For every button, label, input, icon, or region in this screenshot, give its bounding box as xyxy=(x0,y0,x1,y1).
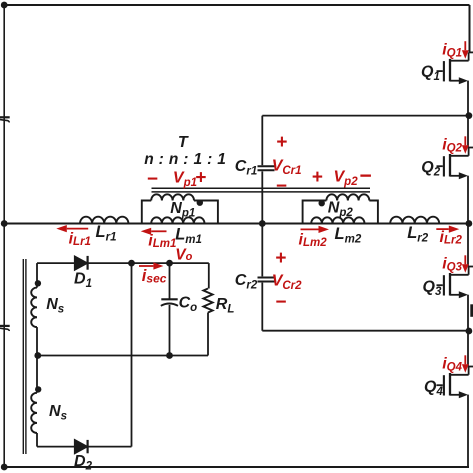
wire: rail jog vertical Q3 xyxy=(468,267,470,275)
diode D1 xyxy=(75,256,88,270)
wire: D1 cathode to output node xyxy=(87,262,209,264)
wire: Co bottom xyxy=(169,305,171,356)
current arrow iLr1 xyxy=(67,228,88,230)
wire: secondary top xyxy=(37,262,75,264)
wire: rail jog vertical Q2 xyxy=(468,148,470,156)
winding Ns1 xyxy=(36,263,38,288)
wire: rail jog vertical Q4 xyxy=(468,367,470,375)
wire: rectified vertical (D1-D2 join) xyxy=(131,263,133,447)
transistor Q2 xyxy=(437,154,469,179)
current arrow iLm1 xyxy=(151,230,166,232)
inductor Lr1 xyxy=(80,217,128,224)
node: top-left junction xyxy=(1,2,8,9)
node: center tap junction xyxy=(34,352,41,359)
current arrow iQ4 xyxy=(464,355,466,364)
svg-text:+: + xyxy=(276,132,287,153)
wire: right rail Q2source-Q3jog xyxy=(467,176,469,267)
polarity dot Ns1 xyxy=(35,280,41,286)
svg-text:T: T xyxy=(178,134,189,151)
capacitor Cr2 xyxy=(258,278,275,282)
current arrow iLr2 xyxy=(436,228,449,230)
svg-text:+: + xyxy=(275,248,286,269)
transformer secondary core bars xyxy=(23,259,26,454)
transistor Q1 xyxy=(437,59,469,84)
node: D1 cathode junction xyxy=(128,260,135,267)
voltage source Vin lower plates (left edge) xyxy=(0,326,10,331)
wire: right-rail jog stub Q1 xyxy=(469,51,473,53)
wire: RL branch top xyxy=(208,263,210,288)
inductor Lr2 xyxy=(390,217,439,224)
wire: right-rail jog stub Q3 xyxy=(469,266,473,268)
wire: RL bottom xyxy=(207,313,209,356)
polarity dot Np2 xyxy=(319,200,325,206)
wire: left rail xyxy=(3,5,5,467)
winding Np2 loop xyxy=(303,201,327,224)
wire: D2 cathode to vertical xyxy=(87,446,132,448)
wire: main resonant line xyxy=(4,223,469,225)
node: bottom-left junction xyxy=(1,464,8,471)
edge artifact blob xyxy=(470,304,473,317)
node: Cr2 line / right rail xyxy=(466,328,473,335)
node: main line / right rail xyxy=(466,220,473,227)
wire: rail jog vertical Q1 xyxy=(468,52,470,60)
transformer core bars xyxy=(152,188,371,192)
wire: right rail top segment xyxy=(469,5,471,52)
winding Ns2 xyxy=(36,356,38,393)
wire: right rail Q4source-bottom xyxy=(467,395,469,467)
current arrow iQ1 xyxy=(464,41,466,50)
capacitor Co xyxy=(161,299,178,306)
node: main line / Cr center xyxy=(259,220,266,227)
wire: right rail Q3source-Q4jog xyxy=(467,295,469,367)
wire: Cr2 vertical xyxy=(261,224,263,331)
wire: top rail xyxy=(4,4,470,6)
wire: right-rail jog stub Q2 xyxy=(469,147,473,149)
polarity dot Np1 xyxy=(197,200,203,206)
current arrow iQ2 xyxy=(464,136,466,145)
wire: right-rail jog stub Q4 xyxy=(469,366,473,368)
node: Vo output node xyxy=(166,260,173,267)
wire: right rail Q1source-Q2jog xyxy=(467,81,469,148)
inductor Lm1 xyxy=(151,217,204,223)
transistor Q4 xyxy=(437,373,469,398)
node: Co bottom junction xyxy=(166,352,173,359)
svg-text:+: + xyxy=(312,167,323,188)
svg-text:−: − xyxy=(147,169,158,190)
diode D2 xyxy=(75,440,88,453)
node: left rail / main line xyxy=(1,220,8,227)
capacitor Cr1 xyxy=(258,166,275,170)
svg-text:+: + xyxy=(195,167,206,188)
current arrow isec xyxy=(139,265,153,267)
wire: bottom rail xyxy=(4,466,469,468)
voltage source Vin upper plates (left edge) xyxy=(0,117,10,122)
inductor Lm2 xyxy=(311,217,364,223)
transistor Q3 xyxy=(437,273,469,298)
wire: output bottom line / center tap xyxy=(38,355,208,357)
node: Cr1 line / right rail xyxy=(466,112,473,119)
winding Np1 loop xyxy=(142,201,151,224)
svg-text:n : n : 1 : 1: n : n : 1 : 1 xyxy=(144,151,226,168)
svg-text:−: − xyxy=(359,164,371,187)
svg-text:−: − xyxy=(275,292,286,313)
wire: Cr1 top branch to rail xyxy=(262,115,469,117)
wire: Cr1 vertical xyxy=(261,116,263,224)
wire: Co branch top xyxy=(169,263,171,299)
resistor RL xyxy=(203,289,212,313)
current arrow iLm2 xyxy=(301,228,319,230)
current arrow iQ3 xyxy=(464,255,466,264)
polarity dot Ns2 xyxy=(35,386,41,392)
wire: secondary bottom (D2 row) xyxy=(37,446,75,448)
wire: Cr2 bottom branch to rail xyxy=(262,330,468,332)
svg-text:−: − xyxy=(276,176,287,197)
